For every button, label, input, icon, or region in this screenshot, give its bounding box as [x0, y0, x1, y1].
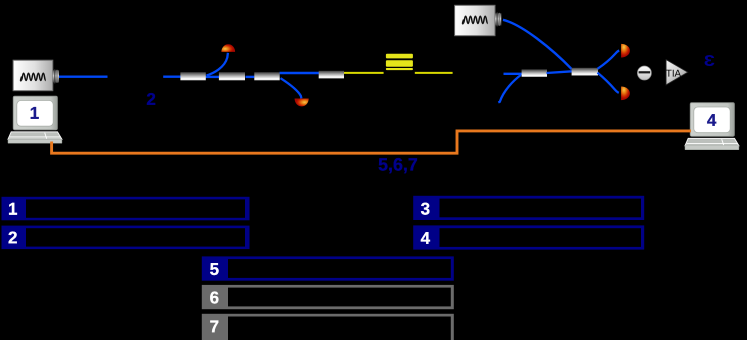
wire: fiber from C6 up to photodetector PD3 — [598, 51, 620, 69]
svg-text:6: 6 — [210, 288, 219, 307]
legend row 2 — [2, 226, 250, 250]
svg-text:3: 3 — [704, 52, 715, 69]
svg-text:7: 7 — [210, 317, 219, 336]
coupler C3 — [254, 72, 279, 80]
svg-text:4: 4 — [707, 111, 717, 130]
svg-text:2: 2 — [146, 90, 155, 109]
legend row 4 — [413, 225, 644, 249]
svg-text:2: 2 — [8, 228, 17, 247]
legend row 6 — [202, 285, 454, 309]
computer PC4 — [685, 103, 739, 150]
balanced detector (minus circle) — [637, 66, 651, 80]
wire: orange data cable PC1 to PC4 — [52, 131, 691, 153]
coupler C2 — [219, 72, 245, 80]
svg-text:1: 1 — [30, 104, 39, 123]
wire: fiber from node at C1-C2 up to photodetector PD1 — [207, 53, 228, 76]
coupler C1 — [180, 72, 205, 80]
op-amp U3 TIA amplifier — [666, 60, 688, 85]
photodetector PD2 (dome, flat top) — [295, 99, 309, 107]
laser U1 — [13, 60, 59, 90]
svg-text:5: 5 — [210, 260, 219, 279]
wire: blue fiber from laser U1 output — [59, 75, 108, 77]
svg-text:5,6,7: 5,6,7 — [378, 155, 418, 175]
wire: fiber into coupler C5 — [504, 73, 523, 75]
legend row 1 — [2, 197, 250, 221]
coupler C6 — [572, 68, 598, 76]
fiber spool bar 3 — [386, 68, 413, 70]
wire: fiber between C5 and C6 — [547, 71, 573, 73]
legend row 5 — [202, 256, 454, 280]
laser U2 — [455, 5, 502, 35]
coupler C5 — [522, 69, 547, 76]
wire: fiber from C6 down to photodetector PD4 — [598, 73, 619, 93]
svg-text:1: 1 — [8, 200, 17, 219]
photodetector PD4 (dome, flat left) — [621, 87, 630, 101]
wire: blue fiber segment into coupler C1 — [163, 75, 181, 77]
photodetector PD1 (dome, flat bottom) — [221, 44, 235, 52]
svg-text:4: 4 — [421, 229, 431, 248]
legend row 3 — [413, 196, 644, 220]
wire: unused port of coupler C5 hanging down — [498, 75, 521, 103]
svg-text:TIA: TIA — [666, 69, 682, 80]
wire: fiber output of coupler C3 — [280, 72, 320, 75]
coupler C4 — [319, 71, 344, 79]
svg-text:3: 3 — [421, 199, 430, 218]
computer PC1 — [8, 96, 62, 143]
wire: fiber branch from coupler C3 down to photodetector PD2 — [281, 78, 302, 98]
legend row 7 — [202, 314, 454, 340]
sensing fiber (yellow) left segment — [344, 72, 384, 74]
fiber spool bar 2 — [386, 60, 413, 67]
photodetector PD3 (dome, flat left) — [621, 44, 630, 58]
wire: fiber between coupler C2 and C3 — [246, 76, 255, 78]
fiber spool bar 1 — [386, 54, 413, 59]
wire: fiber from laser U2 down to coupler C6 — [503, 20, 572, 69]
sensing fiber (yellow) right segment — [415, 72, 453, 74]
wire: fiber between coupler C1 and C2 — [205, 76, 219, 78]
